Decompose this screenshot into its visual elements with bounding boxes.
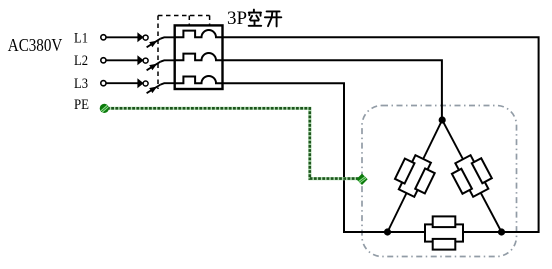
breaker pole 2 — [175, 53, 223, 60]
wire delta right leg — [442, 120, 501, 232]
wire L3 feed — [106, 78, 143, 88]
svg-text:L3: L3 — [74, 76, 88, 92]
terminal L2 — [101, 58, 106, 63]
node PE — [74, 97, 89, 113]
node L3 — [74, 76, 88, 92]
wire L2 feed — [106, 55, 143, 65]
node top vertex — [439, 116, 446, 123]
wire L2 to heater — [223, 60, 442, 120]
svg-text:L2: L2 — [74, 53, 88, 69]
breaker QF box — [175, 25, 223, 89]
wire L1 to heater (top run) — [223, 37, 539, 232]
breaker pole 3 — [175, 76, 223, 83]
terminal L3 — [101, 81, 106, 86]
switch S1 — [143, 35, 175, 47]
heater element R3 (bottom) — [425, 216, 463, 249]
node bottom-left vertex — [384, 228, 391, 235]
PE bond blob at enclosure — [356, 174, 367, 185]
label 3P 空开 — [227, 8, 281, 29]
svg-text:AC380V: AC380V — [8, 35, 63, 55]
PE terminal blob — [100, 104, 109, 113]
svg-text:3P: 3P — [227, 8, 247, 29]
enclosure (heater case, dash-dot) — [362, 106, 517, 257]
wire delta bottom — [388, 231, 502, 233]
wire L3 to heater — [223, 83, 388, 232]
svg-text:PE: PE — [74, 97, 89, 113]
label AC380V — [8, 35, 63, 55]
svg-text:L1: L1 — [74, 30, 88, 46]
heater element R1 (left leg) — [392, 152, 438, 201]
switch S3 — [143, 81, 175, 93]
switch S2 — [143, 58, 175, 70]
heater element R2 (right leg) — [448, 151, 495, 200]
terminal L1 — [101, 35, 106, 40]
node bottom-right vertex — [498, 228, 505, 235]
wire PE (green bonding) — [107, 108, 359, 178]
node L1 — [74, 30, 88, 46]
wire delta left leg — [388, 120, 443, 232]
node L2 — [74, 53, 88, 69]
wire L1 feed — [106, 32, 143, 42]
breaker pole 1 — [175, 30, 223, 37]
linkage (dashed gang bar) — [158, 16, 210, 90]
